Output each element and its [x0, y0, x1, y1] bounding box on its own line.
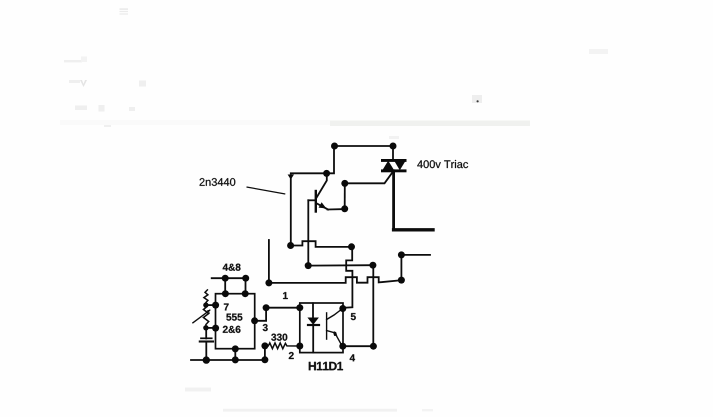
potentiometer arrowhead [207, 309, 211, 313]
wire F2 to F1 [344, 183, 346, 208]
capacitor C1 lead [205, 328, 207, 339]
phototransistor emitter arrow [333, 332, 337, 336]
wire pin4 to node [343, 345, 374, 347]
junction dots [203, 143, 405, 364]
phototransistor collector [327, 309, 343, 320]
wire collector lead [316, 174, 327, 199]
label pin 5 [351, 313, 356, 320]
LED D1 triangle [307, 318, 319, 325]
node N1 [222, 290, 229, 297]
ground node R3 [261, 356, 268, 363]
wire stub down to node J [268, 240, 270, 283]
node J [265, 279, 272, 286]
phototransistor base bar [326, 313, 328, 339]
node B [331, 143, 338, 150]
node K [398, 277, 405, 284]
label 330 [271, 334, 287, 341]
transistor Q1 base lead [308, 199, 316, 201]
leader line 2n3440 [247, 187, 286, 194]
node F2 [341, 205, 348, 212]
node M1 [222, 275, 229, 282]
wire Q1 to pin7 [206, 304, 216, 306]
ground node R2 [232, 356, 239, 363]
label 4&8 [223, 264, 241, 271]
wire bump D to G [291, 241, 352, 247]
ground node R1 [203, 356, 210, 363]
Vcc 4&8 rail [212, 277, 246, 279]
capacitor C1 lead to ground [205, 342, 207, 360]
wire G jog down to pin5 [343, 247, 353, 308]
wire Q2 to pin2и6 [206, 327, 216, 329]
wire thick output [394, 228, 433, 231]
pot node Q2 [203, 325, 208, 330]
node S [261, 342, 268, 349]
transistor Q1 emitter [316, 203, 328, 210]
opto pin5 node [339, 305, 346, 312]
speck [477, 100, 479, 102]
node P4b [370, 343, 377, 350]
node D [287, 242, 294, 249]
LED D1 cathode bar [308, 324, 319, 326]
555 timer U1 box [216, 294, 255, 349]
LED D1 anode lead [312, 303, 314, 317]
label pin 3 [263, 324, 268, 331]
background smudges [60, 8, 608, 411]
wire base down to node E [307, 200, 309, 265]
pin 3 node [251, 317, 258, 324]
resistor 330 [265, 343, 300, 349]
node M2 [242, 275, 249, 282]
node G [348, 243, 355, 250]
LED D1 cathode lead [312, 325, 314, 352]
node F1 [341, 180, 348, 187]
label pin 4 [350, 354, 355, 361]
node E [305, 262, 312, 269]
wire node E to node I [308, 264, 373, 266]
wire F1 to triac gate [345, 171, 393, 183]
node N2 [242, 290, 249, 297]
transistor Q1 emitter arrowhead [319, 202, 327, 208]
wire pin3 to pin1 [255, 308, 300, 321]
pin 2&6 node [212, 325, 219, 332]
potentiometer wiper arrow [193, 310, 210, 323]
node A [323, 170, 330, 177]
label pin 2&6 [223, 326, 241, 333]
wire emitter to node F2 [328, 208, 345, 210]
label 2n3440 [200, 178, 236, 186]
potentiometer R1 [204, 290, 208, 305]
wire node I down to pin4 node [372, 265, 374, 346]
wire direction arrowhead [288, 175, 294, 180]
wire 555 gnd pin [234, 349, 236, 360]
opto pin1 node [296, 304, 303, 311]
triac TR1 [381, 159, 407, 172]
wire from node B down to collector node [291, 146, 334, 173]
node U [263, 304, 270, 311]
pin 7 node [212, 302, 219, 309]
wire stub from L [401, 254, 430, 256]
wire arrow vertical down to node D [290, 175, 292, 246]
ground rail [191, 359, 265, 361]
pot node Q1 [203, 302, 208, 307]
triac top lead [392, 146, 394, 161]
wire top rail [335, 145, 394, 147]
555 gnd pin node [232, 345, 239, 352]
transistor Q1 base bar [315, 191, 317, 212]
wire K up to L [400, 255, 402, 280]
wire M2 down [245, 278, 247, 294]
node L [398, 251, 405, 258]
phototransistor emitter [327, 331, 341, 344]
label 400v Triac [417, 160, 468, 168]
optocoupler U2 H11D1 box [300, 303, 343, 353]
capacitor C1 plates [201, 337, 212, 339]
node I [369, 262, 376, 269]
label pin 1 [283, 292, 288, 299]
label pin 2 [289, 352, 294, 359]
label pin 7 [224, 304, 229, 311]
triac bottom lead [392, 171, 395, 230]
node C [390, 143, 397, 150]
label 555 [226, 314, 242, 321]
opto pin2 node [296, 343, 303, 350]
wire M1 down [224, 278, 226, 294]
wire node S to ground [264, 346, 266, 360]
wire hops J to K [269, 277, 402, 283]
label H11D1 [309, 362, 343, 370]
opto pin4 node [339, 343, 346, 350]
